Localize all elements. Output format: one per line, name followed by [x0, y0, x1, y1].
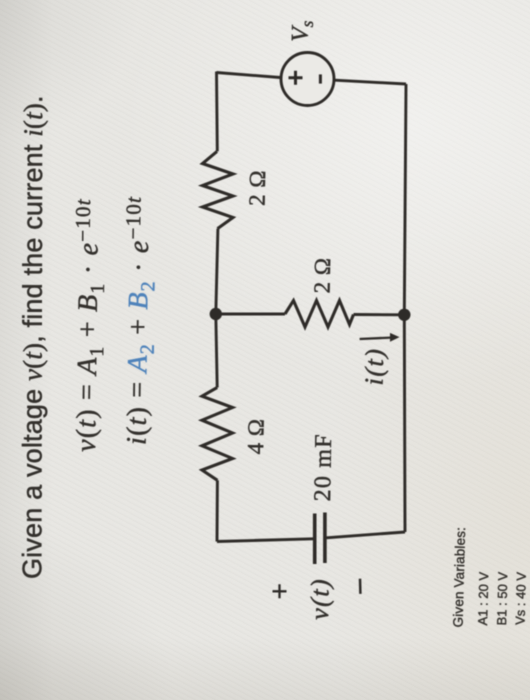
right wire vertical (node B to bottom corner): [403, 315, 407, 532]
label - (v(t) polarity, rotated minus): [359, 579, 362, 594]
wire left vertical top: [215, 72, 219, 152]
label Vs: [288, 20, 317, 42]
svg-text:i(t): i(t): [360, 347, 390, 385]
variable B1: [494, 571, 510, 625]
svg-text:A1 : 20 V: A1 : 20 V: [475, 571, 491, 625]
label v(t): [305, 578, 335, 621]
equation v(t) = A1 + B1 * e^-10t: [68, 198, 110, 452]
variable Vs: [513, 572, 529, 625]
svg-text:i(t) = A2 + B2 · e−10t: i(t) = A2 + B2 · e−10t: [119, 196, 161, 445]
variable A1: [475, 571, 491, 625]
capacitor 20 mF left plate: [313, 514, 317, 565]
wire top-right horizontal (from source -): [335, 80, 406, 84]
wire node A down to 4 ohm: [216, 314, 217, 388]
right wire vertical (top corner to node B): [404, 84, 406, 315]
svg-text:Given Variables:: Given Variables:: [451, 527, 469, 628]
svg-text:4 Ω: 4 Ω: [243, 418, 269, 454]
wire left vertical to node A: [216, 229, 218, 314]
svg-text:v(t) = A1 + B1 · e−10t: v(t) = A1 + B1 · e−10t: [68, 198, 110, 452]
node B junction dot: [398, 309, 410, 321]
given variables heading: [451, 527, 469, 628]
svg-text:20 mF: 20 mF: [310, 433, 337, 501]
svg-text:Vs : 40 V: Vs : 40 V: [513, 572, 529, 625]
bottom wire right segment (capacitor to corner): [327, 532, 406, 538]
label i(t): [360, 347, 390, 385]
label 20 mF: [310, 433, 337, 501]
resistor R top-left 2 ohm (vertical zigzag): [203, 151, 234, 228]
node A junction dot: [210, 308, 222, 320]
resistor R2 middle 2 ohm (horizontal zigzag): [285, 301, 354, 328]
middle wire right lead (R2 to node B): [354, 313, 405, 316]
current arrow i(t) (pointing toward right wire): [360, 338, 394, 340]
label 2 ohm (top-left resistor): [245, 170, 271, 206]
svg-text:v(t): v(t): [305, 578, 335, 621]
wire top-left horizontal (to source +): [217, 73, 281, 78]
voltage source Vs circle: [281, 53, 334, 106]
label 2 ohm (middle resistor): [310, 257, 336, 293]
capacitor 20 mF right plate: [323, 513, 327, 564]
title: Given a voltage v(t), find the current i(t).: [17, 95, 48, 579]
source plus sign: [289, 71, 303, 85]
middle wire left lead (node A to R2): [216, 313, 285, 316]
source minus sign (rotated): [319, 74, 322, 83]
svg-text:2 Ω: 2 Ω: [310, 257, 336, 293]
label + (v(t) polarity): [273, 584, 287, 598]
bottom wire left segment (corner to capacitor): [217, 539, 313, 542]
wire 4 ohm down to bottom-left corner: [216, 480, 219, 541]
svg-text:Given a voltage v(t), find the: Given a voltage v(t), find the current i…: [17, 95, 48, 579]
resistor 4 ohm (vertical zigzag): [202, 388, 233, 481]
svg-text:2 Ω: 2 Ω: [245, 170, 271, 206]
svg-text:B1 : 50 V: B1 : 50 V: [494, 571, 510, 625]
equation i(t) = A2 + B2 * e^-10t (A2, B2 blue): [119, 196, 161, 445]
svg-text:Vs: Vs: [288, 20, 317, 42]
label 4 ohm: [243, 418, 269, 454]
